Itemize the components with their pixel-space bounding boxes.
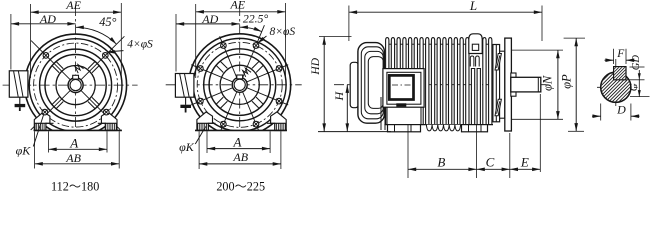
side view: lifting lug xyxy=(469,34,482,67)
dimension AD (motor2) extension line xyxy=(175,14,177,72)
side view: rear hub bump xyxy=(350,62,358,107)
svg-text:D: D xyxy=(616,103,626,117)
motor2: right foot pad (hatched) xyxy=(275,123,286,130)
label 4xphiS leader (motor1) xyxy=(107,39,153,54)
side view: flange plate xyxy=(505,38,512,131)
label M (motor2) xyxy=(241,67,251,77)
svg-text:HD: HD xyxy=(310,57,322,75)
svg-text:200～225: 200～225 xyxy=(216,180,265,194)
dimension phiP ticks xyxy=(564,38,585,131)
motor1: right foot pad (hatched) xyxy=(105,123,116,130)
dimension C xyxy=(477,154,510,171)
motor1: base line xyxy=(34,129,122,131)
svg-text:A: A xyxy=(233,135,242,150)
dimension D xyxy=(592,103,640,118)
motor2 front view: bearing housing circle xyxy=(209,54,270,115)
shaft section: hatching xyxy=(566,67,650,107)
svg-text:112～180: 112～180 xyxy=(51,180,99,194)
dimension AD (motor1) xyxy=(11,12,76,26)
motor2: base line xyxy=(195,129,287,131)
dimension AB (motor1) extension lines xyxy=(35,131,120,168)
side view: left foot xyxy=(388,125,421,132)
motor1 front view: hole radial centerlines xyxy=(31,36,125,130)
svg-text:A: A xyxy=(69,135,78,150)
shaft section: shaft circle xyxy=(601,72,631,102)
side view: smooth panel under terminal box xyxy=(387,107,421,125)
motor1 pad top inner lines xyxy=(46,122,54,124)
motor1: white mask below base xyxy=(30,130,126,142)
side view: drive end bracket rings xyxy=(493,45,500,122)
side view: shaft extension xyxy=(511,77,541,92)
shaft section: key and keyway xyxy=(600,67,637,80)
svg-text:8×φS: 8×φS xyxy=(269,26,295,38)
motor1 front view: frame outer circle xyxy=(25,34,127,136)
side view: drain plug under box xyxy=(396,103,406,106)
motor2 front view: shaft keyway notch xyxy=(237,75,243,79)
dimension phiN ticks xyxy=(512,50,563,119)
motor2 front view: ribs (spokes) xyxy=(216,61,264,109)
svg-text:G: G xyxy=(628,83,640,91)
motor2 front view: flange circle xyxy=(193,38,286,131)
motor1 front view: ribs (spokes) xyxy=(52,61,100,109)
side view: shaft centerline xyxy=(334,84,547,86)
dimension L extension lines xyxy=(349,6,542,42)
motor1 front view: shaft circles xyxy=(68,78,83,93)
motor1: left foot bracket xyxy=(34,112,50,130)
motor2 front view: centerlines xyxy=(166,6,302,141)
svg-text:φN: φN xyxy=(541,75,555,91)
svg-text:AE: AE xyxy=(65,0,81,12)
dimension GD xyxy=(630,55,645,80)
motor1 front view: shaft keyway notch xyxy=(73,75,79,79)
svg-text:L: L xyxy=(469,0,477,13)
motor2: right foot bracket xyxy=(271,112,287,130)
side view: shaft shoulder boss xyxy=(511,73,516,96)
45 degree dimension arc (motor1) xyxy=(76,15,118,45)
dimension A (motor2) extension lines xyxy=(207,131,270,153)
side view: bottom fin tips between feet xyxy=(426,125,460,131)
dimension A (motor1) xyxy=(49,135,108,151)
motor2: white mask below base xyxy=(191,130,291,142)
svg-text:F: F xyxy=(616,48,625,60)
svg-text:GD: GD xyxy=(631,55,642,71)
dimension F xyxy=(605,48,635,62)
motor1 front view: bearing housing circle xyxy=(45,55,106,116)
svg-text:E: E xyxy=(520,154,529,169)
motor2 front view: shaft circles xyxy=(232,77,247,92)
motor1 front view: flange bolt holes xyxy=(43,53,108,59)
motor2: left foot bracket xyxy=(197,112,213,130)
dimension H xyxy=(332,85,349,132)
dimension AE (motor2) extension lines xyxy=(196,3,286,80)
svg-text:AB: AB xyxy=(65,151,81,165)
dimension G xyxy=(628,80,650,97)
side view: feet bottom extension line xyxy=(318,131,391,133)
svg-text:φK: φK xyxy=(179,140,195,154)
label 8xphiS leader (motor2) xyxy=(256,26,295,45)
side view: fan cowl outer xyxy=(358,43,385,124)
label phiK leader (motor2) xyxy=(179,127,206,155)
svg-text:AE: AE xyxy=(229,0,245,11)
side view: flange bolt hole sections xyxy=(495,54,501,116)
svg-text:4×φS: 4×φS xyxy=(127,39,153,51)
dimension HD top tick xyxy=(319,36,352,38)
22.5 degree dimension arc (motor2) xyxy=(240,12,269,34)
motor2 drain plug xyxy=(180,97,191,112)
motor1 terminal box xyxy=(9,71,28,97)
motor2 front view: flange bolt holes xyxy=(198,43,282,127)
side view: right foot xyxy=(462,125,488,132)
motor2 terminal box xyxy=(175,74,194,98)
dimension F extension lines xyxy=(614,49,626,64)
svg-text:B: B xyxy=(437,154,445,169)
side view: fan cowl nested lines xyxy=(361,47,383,119)
dimension AD (motor2) xyxy=(176,12,240,26)
dimension AD (motor1) extension line xyxy=(10,14,12,70)
motor2 front view: spigot circle xyxy=(204,49,276,121)
dimension AB (motor1) xyxy=(35,151,120,166)
motor2 front view: inner boss circle xyxy=(220,65,259,104)
dimension A (motor1) extension lines xyxy=(49,131,108,152)
svg-text:φP: φP xyxy=(560,74,574,89)
dimension E xyxy=(510,154,541,171)
dimension HD xyxy=(310,37,326,132)
motor2: left foot pad (hatched) xyxy=(198,123,209,130)
motor1: right foot bracket xyxy=(101,112,117,130)
motor1 front view: centerlines xyxy=(3,6,138,141)
svg-text:22.5°: 22.5° xyxy=(243,12,269,26)
dimension AE (motor1) extension lines xyxy=(31,3,122,80)
dimension phiN xyxy=(541,50,560,119)
dimension AB (motor2) xyxy=(199,150,281,166)
svg-text:45°: 45° xyxy=(99,15,116,29)
dimension AB (motor2) extension lines xyxy=(199,131,281,169)
dimension L xyxy=(349,0,542,14)
motor1 front view: inner boss circle xyxy=(56,66,95,105)
dimension A (motor2) xyxy=(207,135,270,151)
motor2 front view: bolt circle (dash-dot) xyxy=(197,42,282,127)
svg-text:AB: AB xyxy=(232,150,248,164)
motor1 drain plug xyxy=(15,97,26,111)
dimension AE (motor2) xyxy=(196,0,286,14)
side view: cowl-body junction verticals xyxy=(381,97,385,130)
label M (motor1) xyxy=(74,63,84,73)
motor1 front view: bolt circle (dash-dot) xyxy=(34,43,118,127)
motor1 lower flange bolt holes xyxy=(42,109,109,115)
motor2 front view: frame outer circle xyxy=(189,34,291,136)
svg-text:φK: φK xyxy=(16,143,32,157)
svg-text:AD: AD xyxy=(39,12,56,26)
svg-text:AD: AD xyxy=(201,12,218,26)
shaft section: centerlines xyxy=(597,59,638,108)
motor1 front view: flange circle xyxy=(29,39,122,132)
dimension phiP xyxy=(560,38,578,131)
side view: intermediate ring xyxy=(500,51,505,118)
dimension AE (motor1) xyxy=(31,0,122,14)
svg-text:C: C xyxy=(486,154,495,169)
motor1: left foot pad (hatched) xyxy=(35,123,46,130)
dimension B xyxy=(408,154,477,171)
side view: cooling fins xyxy=(384,38,493,125)
motor1 front view: spigot circle xyxy=(40,49,112,121)
dimension B C E extension lines xyxy=(408,94,540,178)
label phiK leader (motor1) xyxy=(16,115,44,157)
motor2 pad top inner lines xyxy=(208,122,215,124)
dimension D extension lines xyxy=(601,104,631,121)
svg-text:H: H xyxy=(332,91,346,102)
side view: terminal box (nameplate) xyxy=(383,69,424,108)
motor2 front view: hole radial centerlines xyxy=(191,25,288,133)
